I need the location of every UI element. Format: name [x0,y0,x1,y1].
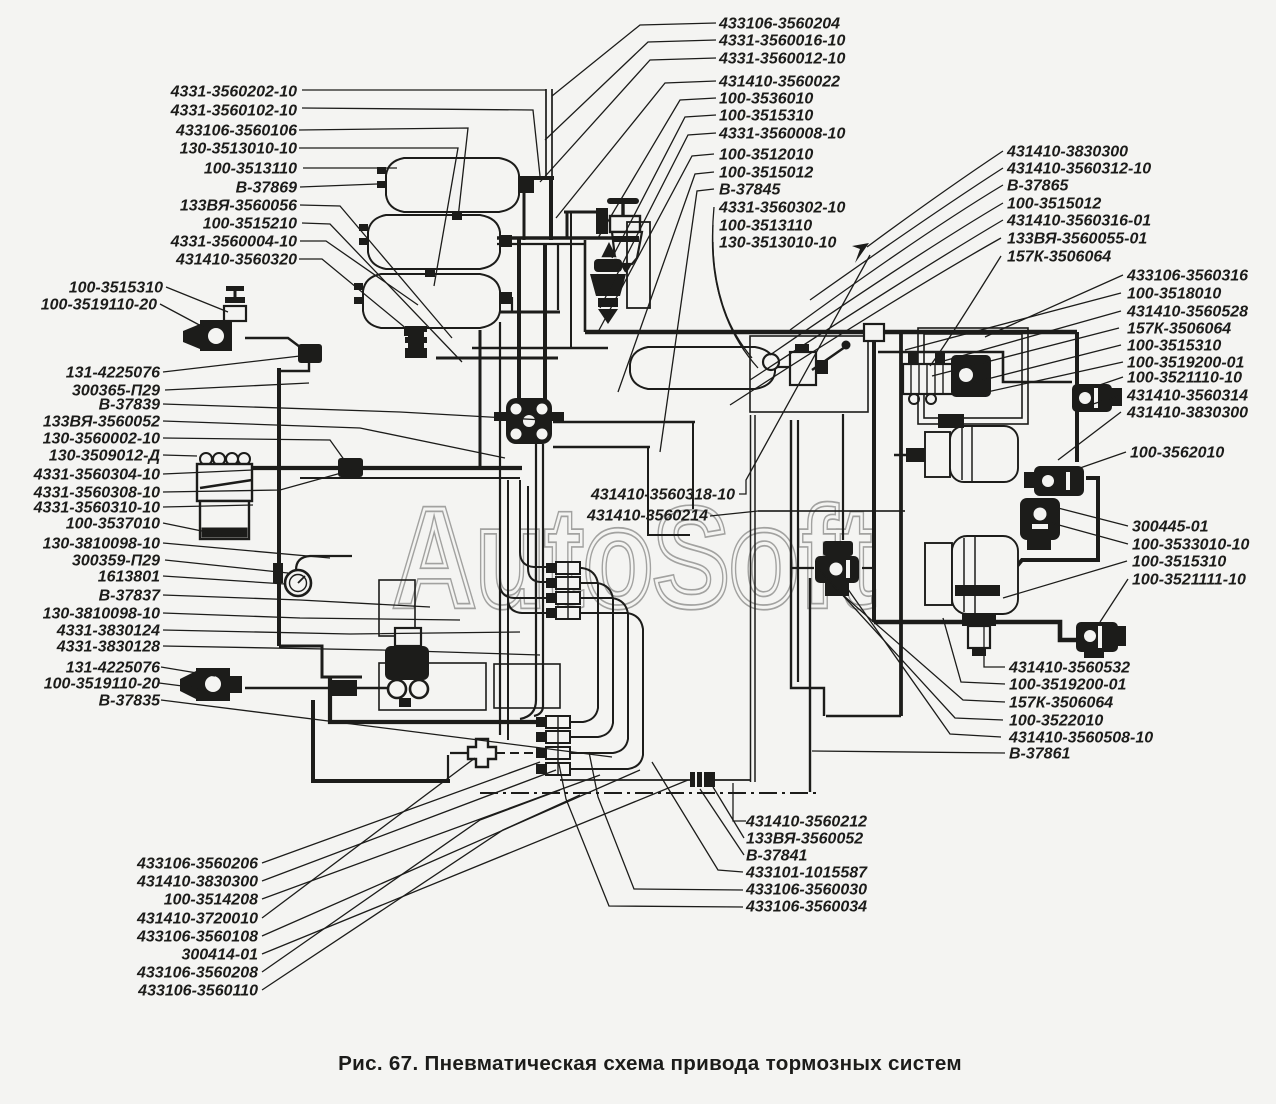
arrow to pipe (431410-3830300) [852,243,869,263]
wire v 480 [479,330,482,468]
svg-text:Рис. 67. Пневматическая схема: Рис. 67. Пневматическая схема привода то… [338,1052,962,1075]
svg-text:100-3562010: 100-3562010 [1130,445,1224,462]
svg-text:133ВЯ-3560055-01: 133ВЯ-3560055-01 [1007,231,1147,248]
leader 157К-3506064 [828,582,1005,702]
leader 4331-3560004-10 [300,241,418,305]
wire bottom h783 [313,700,450,781]
leader 431410-3830300 [867,151,1003,247]
svg-text:130-3560002-10: 130-3560002-10 [43,431,161,448]
svg-text:100-3515310: 100-3515310 [719,108,813,125]
leader 157К-3506064 [930,256,1001,366]
wire supply h468 [252,466,522,470]
svg-text:100-3518010: 100-3518010 [1127,286,1221,303]
svg-text:157К-3506064: 157К-3506064 [1009,695,1113,712]
wire v1077 [1075,332,1079,462]
wire bottom main h725 [330,677,546,722]
svg-text:433106-3560108: 433106-3560108 [136,929,258,946]
svg-text:100-3521111-10: 100-3521111-10 [1132,572,1246,589]
svg-text:433101-1015587: 433101-1015587 [745,865,868,882]
valve 100-3521110-10 (top right) [1072,384,1122,412]
wire v798 [797,420,799,682]
leader 431410-3830300 [1058,412,1121,460]
svg-text:157К-3506064: 157К-3506064 [1127,321,1231,338]
four-circuit protection valve 100-3515310 [494,398,564,444]
frame lower bracket right [494,664,560,708]
tank fittings [354,167,534,336]
svg-text:130-3810098-10: 130-3810098-10 [43,536,161,553]
wire v843 [842,414,844,540]
leader 130-3509012-Д [163,455,197,456]
wire h 358 [436,357,558,360]
leader 100-3537010 [163,523,226,536]
regulator 431410-3560022 (long tank end) [763,341,851,386]
air tank 100-3512010 (long receiver) [630,347,775,389]
svg-text:431410-3720010: 431410-3720010 [136,911,258,928]
svg-text:100-3519110-20: 100-3519110-20 [41,297,157,314]
leader 431410-3560214 [710,511,905,516]
air tank 100-3515210 (middle receiver) [368,215,500,269]
svg-text:431410-3560528: 431410-3560528 [1126,304,1248,321]
wire tee drop [447,755,449,781]
svg-text:100-3515310: 100-3515310 [69,280,163,297]
leader 4331-3830128 [163,646,540,655]
leader 130-3810098-10 [163,613,460,620]
wire v901 [899,332,903,716]
svg-text:В-37861: В-37861 [1009,746,1070,763]
leader В-37865 [790,185,1003,330]
svg-text:4331-3560012-10: 4331-3560012-10 [718,51,845,68]
svg-text:431410-3830300: 431410-3830300 [1126,405,1248,422]
svg-text:В-37841: В-37841 [746,848,807,865]
wire manifold loop 2 [570,583,613,737]
svg-text:100-3521110-10: 100-3521110-10 [1127,370,1242,387]
svg-text:4331-3830128: 4331-3830128 [56,639,160,656]
leader 131-4225076 [161,667,215,676]
air dryer 100-3536010 with shutoff valve [596,198,650,308]
leader 130-3513010-10 [713,242,758,368]
leader 4331-3560310-10 [163,505,253,507]
leader 433106-3560316 [985,275,1123,337]
wire um feed4 [508,480,546,613]
tee 431410-3720010 [468,739,496,767]
wire main line [585,330,1077,335]
svg-text:433106-3560030: 433106-3560030 [745,882,867,899]
wire long h511 [758,510,905,512]
wire h 347 [472,347,608,349]
wire b780 [560,779,750,781]
svg-text:433106-3560110: 433106-3560110 [137,983,258,1000]
leader 433106-3560110 [262,795,580,990]
svg-text:431410-3560508-10: 431410-3560508-10 [1008,730,1153,747]
svg-text:130-3810098-10: 130-3810098-10 [43,606,161,623]
leader 431410-3560320 [299,259,408,330]
svg-text:431410-3560532: 431410-3560532 [1008,660,1130,677]
accelerating valve 100-3533010-10 [815,541,859,596]
svg-text:В-37837: В-37837 [99,588,161,605]
pressure gauge 1613801 [273,556,352,596]
svg-text:4331-3560004-10: 4331-3560004-10 [170,234,297,251]
leader 4331-3560302-10 [713,207,744,350]
svg-text:433106-3560208: 433106-3560208 [136,965,258,982]
wire left riser [277,368,281,646]
svg-text:100-3533010-10: 100-3533010-10 [1132,537,1250,554]
leader 100-3515310 [952,345,1121,388]
svg-text:133ВЯ-3560052: 133ВЯ-3560052 [43,414,160,431]
svg-text:100-3515310: 100-3515310 [1132,554,1226,571]
svg-text:100-3522010: 100-3522010 [1009,713,1103,730]
brake chamber with energy accumulator 100-3519200-01 (rear) [925,536,1018,656]
leader 130-3810098-10 [163,543,330,558]
svg-text:131-4225076: 131-4225076 [66,660,160,677]
leader 4331-3560102-10 [302,108,540,176]
relay valve 300445-01 [1020,498,1060,550]
wire manifold loop 3 [570,598,628,753]
hose fitting 130-3560002-10 [338,458,363,477]
svg-text:130-3509012-Д: 130-3509012-Д [49,448,161,465]
leader 433101-1015587 [652,762,743,872]
wire bundle v2 [543,244,547,400]
leader 431410-3560508-10 [845,585,1001,737]
leader 100-3515310 [612,115,716,258]
wire head elbow [281,362,309,371]
leader 100-3519200-01 [978,362,1123,394]
svg-text:300445-01: 300445-01 [1132,519,1209,536]
svg-text:133ВЯ-3560056: 133ВЯ-3560056 [180,198,297,215]
leader В-37841 [700,789,744,855]
wire 4cv down2 [534,444,543,716]
wire manifold loop 1 [570,568,598,722]
svg-text:133ВЯ-3560052: 133ВЯ-3560052 [746,831,863,848]
leader 100-3515310 [1003,561,1127,598]
svg-text:4331-3560202-10: 4331-3560202-10 [170,84,297,101]
leader 4331-3830124 [163,630,520,634]
svg-text:131-4225076: 131-4225076 [66,365,160,382]
svg-text:300414-01: 300414-01 [181,947,258,964]
svg-text:В-37839: В-37839 [99,397,160,414]
svg-text:100-3514208: 100-3514208 [164,892,258,909]
svg-text:100-3515012: 100-3515012 [1007,196,1101,213]
svg-text:В-37835: В-37835 [99,693,161,710]
svg-text:4331-3560016-10: 4331-3560016-10 [718,33,845,50]
dual brake valve 157К-3506064 [903,353,991,404]
leader В-37835 [161,700,612,757]
svg-text:431410-3830300: 431410-3830300 [1006,144,1128,161]
wire manifold loop 4 [570,613,643,769]
wire junction drop [872,341,876,622]
leader 4331-3560008-10 [600,133,716,308]
leader 100-3514208 [262,775,600,899]
valve 100-3521111-10 (bottom right) [1076,622,1126,658]
pressure regulator 100-3512010 [590,242,626,324]
svg-text:431410-3560320: 431410-3560320 [175,252,297,269]
brake chamber 100-3519200-01 (front) [906,414,1018,482]
svg-text:100-3515210: 100-3515210 [203,216,297,233]
svg-text:157К-3506064: 157К-3506064 [1007,249,1111,266]
coupling head 131-4225076 (front) [183,286,246,351]
leader 431410-3560022 [556,81,716,218]
svg-text:433106-3560034: 433106-3560034 [745,899,867,916]
wire riser thin pair [546,89,552,177]
wire comp21 right [862,567,874,569]
leader 300414-01 [262,780,688,954]
svg-text:В-37865: В-37865 [1007,178,1069,195]
fitting 300414-01 [690,772,715,787]
wire um feed1 [520,480,546,567]
leader 300445-01 [1058,508,1128,526]
svg-text:В-37845: В-37845 [719,182,781,199]
svg-text:4331-3560302-10: 4331-3560302-10 [718,200,845,217]
leader 431410-3720010 [262,758,475,918]
leader 100-3521111-10 [1100,579,1128,622]
wire chamber1 stem [894,454,925,456]
elbow fitting 300365-П29 [298,344,322,363]
leader 433106-3560106 [299,128,468,218]
leader 100-3562010 [1080,452,1126,468]
leader 431410-3560532 [984,626,1005,667]
wire 4cv down1 [520,444,536,719]
brake valve block 130-3509012-Д [197,453,252,539]
leader 100-3515310 [166,287,228,312]
air tank (lower receiver) [363,274,500,328]
leader В-37869 [300,184,377,187]
manifold fittings 433106-3560030 (upper) [546,562,580,619]
air tank 100-3513110 (upper receiver) [386,158,519,212]
leader 433106-3560204 [552,23,716,96]
svg-text:431410-3560022: 431410-3560022 [718,74,840,91]
leader 1613801 [163,576,285,584]
wire tee stub [450,752,468,754]
leader 130-3513010-10 [299,148,458,286]
svg-text:433106-3560206: 433106-3560206 [136,856,258,873]
hose fitting 133ВЯ (rear line) [330,680,357,696]
svg-text:100-3519110-20: 100-3519110-20 [44,676,160,693]
svg-text:4331-3560102-10: 4331-3560102-10 [170,103,297,120]
drain valve 431410-3560320 [405,326,427,358]
watermark AutoSoft [393,478,875,636]
wire v508 [507,480,509,740]
svg-text:В-37869: В-37869 [236,180,297,197]
leader 100-3513110 [303,167,397,169]
svg-text:1613801: 1613801 [98,569,160,586]
svg-text:431410-3560312-10: 431410-3560312-10 [1006,161,1151,178]
frame brake valve bracket [379,580,415,636]
svg-text:130-3513010-10: 130-3513010-10 [180,141,298,158]
leader 4331-3560304-10 [163,470,253,474]
wire v693 [692,422,694,509]
leader 100-3536010 [598,98,716,238]
leader 433106-3560030 [589,752,743,890]
svg-text:4331-3830124: 4331-3830124 [56,623,160,640]
wire tank1 drop [523,192,526,240]
wire comp21 left [790,567,814,569]
frame around long tank end [750,336,868,412]
junction 4331-3560008-10 [864,324,884,341]
leader 431410-3830300 [262,770,556,881]
wire manifold h2 [497,243,585,245]
wire left stair [279,646,362,677]
svg-text:4331-3560310-10: 4331-3560310-10 [33,500,160,517]
leader 431410-3560212 [733,783,746,821]
svg-text:300359-П29: 300359-П29 [72,553,160,570]
svg-text:433106-3560316: 433106-3560316 [1126,268,1248,285]
wire supply h478 [300,477,520,479]
wire v810 [809,578,811,792]
leader 133ВЯ-3560052 [713,787,744,838]
leader 100-3515012 [770,203,1003,355]
svg-text:100-3537010: 100-3537010 [66,516,160,533]
wire tank3 link [511,297,513,312]
leader 100-3512010 [598,154,714,332]
wire second line [878,352,1072,382]
leader 4331-3560012-10 [540,58,716,182]
frame right portal [918,328,1028,424]
wire h447 [553,446,650,448]
svg-text:4331-3560304-10: 4331-3560304-10 [33,467,160,484]
svg-text:431410-3560318-10: 431410-3560318-10 [590,487,735,504]
svg-text:100-3513110: 100-3513110 [204,161,297,178]
svg-text:130-3513010-10: 130-3513010-10 [719,235,837,252]
leader 433106-3560206 [262,762,540,863]
leader В-37839 [163,404,543,420]
svg-text:431410-3560214: 431410-3560214 [586,508,708,525]
svg-text:100-3515310: 100-3515310 [1127,338,1221,355]
leader 433106-3560208 [262,790,560,972]
svg-text:100-3536010: 100-3536010 [719,91,813,108]
wire um feed3 [500,470,546,598]
svg-text:433106-3560204: 433106-3560204 [718,16,840,33]
leader 4331-3560202-10 [302,89,546,91]
leader 100-3515012 [618,172,714,392]
wire chain line [480,792,816,794]
svg-text:431410-3560316-01: 431410-3560316-01 [1006,213,1151,230]
wire main riser top [519,176,554,180]
wire dashed [496,752,560,754]
manifold fittings 433106-3560034 (lower) [536,716,570,775]
frame lower bracket left [379,663,486,710]
coupling head 131-4225076 (rear) [180,668,242,701]
wire um feed2 [528,486,546,582]
wire comp15 loop [1012,478,1098,572]
wire head2 pipe [245,687,392,689]
wire v500 [499,322,501,735]
svg-text:431410-3830300: 431410-3830300 [136,874,258,891]
leader 431410-3560312-10 [810,168,1003,300]
leader 431410-3560528 [940,311,1121,362]
wire manifold h3 [500,311,560,314]
leader 100-3513110 [712,225,752,358]
leader В-37845 [660,189,714,452]
leader 300365-П29 [165,383,309,390]
svg-text:100-3519200-01: 100-3519200-01 [1009,677,1127,694]
wire filter elbow v [566,212,569,238]
wire h716 [826,715,901,717]
wire manifold h1 [497,236,620,240]
leader 133ВЯ-3560056 [300,205,452,338]
leader 431410-3560314 [1090,395,1121,405]
leader 100-3521110-10 [1085,377,1123,390]
wire main riser [549,176,553,240]
svg-text:4331-3560008-10: 4331-3560008-10 [718,126,845,143]
leader 100-3518010 [905,293,1121,350]
wire v791 [791,420,824,716]
svg-text:431410-3560314: 431410-3560314 [1126,388,1248,405]
svg-text:100-3513110: 100-3513110 [719,218,812,235]
leader 100-3519110-20 [159,683,198,688]
leader 300359-П29 [165,560,288,573]
wire head pipe [245,338,300,347]
leader 100-3533010-10 [1048,522,1128,544]
leader В-37861 [812,751,1005,753]
leader 131-4225076 [163,356,300,372]
svg-text:100-3515012: 100-3515012 [719,165,813,182]
leader 100-3519110-20 [160,304,205,328]
wire main left bend [584,240,587,332]
leader 157К-3506064 [932,328,1119,376]
leader 4331-3560016-10 [545,40,716,140]
leader 100-3515210 [302,223,462,362]
wire v648 [648,447,690,535]
wire v571 [570,212,572,348]
wire thick y622 [874,622,1078,640]
wire frame leg [751,415,756,782]
svg-text:431410-3560212: 431410-3560212 [745,814,867,831]
leader 433106-3560034 [559,764,743,907]
svg-text:100-3512010: 100-3512010 [719,147,813,164]
leader В-37837 [163,595,430,607]
wire filter elbow h [564,211,605,214]
wire tank4 nose [775,366,790,368]
leader 431410-3560318-10 [739,255,870,494]
wire bundle v3 [557,244,559,310]
leader 133ВЯ-3560052 [163,421,505,458]
leader 433106-3560108 [262,770,640,936]
svg-text:433106-3560106: 433106-3560106 [175,123,297,140]
leader 133ВЯ-3560055-01 [730,238,1001,405]
wire bundle v1 [517,238,521,400]
leader 100-3522010 [816,566,1003,720]
brake valve В-37837 (two-section) [385,628,429,707]
leader 431410-3560316-01 [750,220,1003,380]
valve 100-3562010 [1024,466,1084,496]
wire h422 [553,421,695,423]
leader 100-3519200-01 [943,618,1005,684]
leader 130-3560002-10 [163,438,345,461]
leader 4331-3560308-10 [163,470,352,492]
